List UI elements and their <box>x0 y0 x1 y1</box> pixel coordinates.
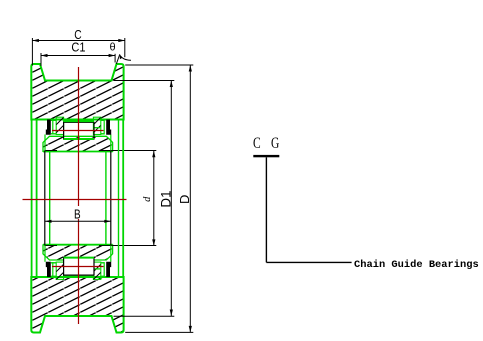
outer ring bore line upper bearing <box>51 119 56 121</box>
seal upper right <box>106 120 111 135</box>
inner ring face right (black vertical, B extension) <box>110 151 112 246</box>
ball lower (rect) <box>64 258 94 276</box>
dimension D <box>125 64 193 66</box>
bearing centerline upper (red) <box>52 130 104 132</box>
dimension B <box>45 220 111 222</box>
bore line lower (black, also d extension) <box>45 245 57 247</box>
pulley side face left (double green verticals) <box>31 120 33 278</box>
cage pocket lower right <box>93 262 100 279</box>
svg-text:C: C <box>253 135 261 152</box>
leader horizontal <box>266 261 351 263</box>
dimension d <box>153 151 155 246</box>
cage pocket lower left <box>56 262 63 279</box>
svg-text:B: B <box>74 209 81 222</box>
cage pocket upper right <box>93 117 100 134</box>
bore chamfer verticals right <box>118 120 120 277</box>
ball upper (rect) <box>64 122 94 139</box>
svg-text:D: D <box>177 195 192 204</box>
bore chamfer verticals left <box>36 120 38 277</box>
leader vertical <box>265 157 267 262</box>
pulley outer ring lower section <box>31 277 123 333</box>
bore line upper (black, also d extension) <box>45 150 57 152</box>
seal upper left <box>46 120 51 135</box>
bearing centerline lower (red) <box>52 266 104 268</box>
bore chamfer silhouette lower (green) <box>43 243 113 245</box>
svg-text:C1: C1 <box>71 41 85 55</box>
cage mid bar upper right <box>94 127 100 129</box>
main vertical centerline (red) <box>78 67 80 324</box>
svg-text:Chain Guide Bearings: Chain Guide Bearings <box>354 259 479 271</box>
outer ring bore line lower bearing <box>51 276 56 278</box>
dimension D1 <box>114 80 175 82</box>
logo underline <box>253 155 279 157</box>
svg-text:G: G <box>271 135 279 152</box>
logo text C G <box>253 135 279 152</box>
svg-text:D1: D1 <box>158 190 173 207</box>
main horizontal centerline (red) <box>23 199 127 201</box>
inner ring face left (black vertical, B extension) <box>44 151 46 246</box>
dimension C <box>32 40 124 42</box>
seal lower right <box>106 262 111 277</box>
seal counterface verticals <box>52 120 54 135</box>
pulley outer ring upper section <box>31 64 123 120</box>
inner ring upper section <box>43 136 113 151</box>
cage mid bar lower right <box>94 268 100 270</box>
raceway line lower <box>64 257 94 259</box>
dimension C1 <box>41 55 115 57</box>
seal lower left <box>46 262 51 277</box>
svg-text:θ: θ <box>110 42 116 54</box>
inner ring lower section <box>43 245 113 260</box>
svg-text:d: d <box>142 196 153 202</box>
pulley side face right (double green verticals) <box>122 120 124 278</box>
raceway line upper <box>64 138 94 140</box>
cage pocket upper left <box>56 117 63 134</box>
bore chamfer silhouette upper (green) <box>43 151 113 153</box>
